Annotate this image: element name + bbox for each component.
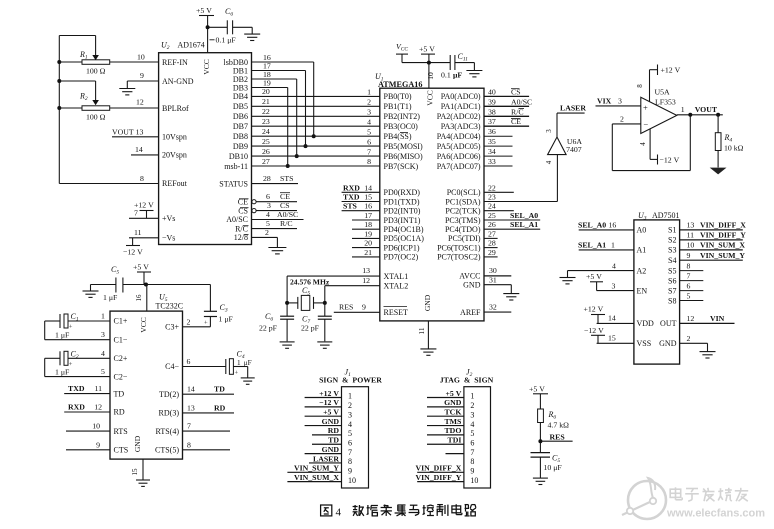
svg-text:STS: STS <box>280 174 293 183</box>
svg-text:TD(2): TD(2) <box>159 390 179 399</box>
svg-text:22: 22 <box>488 183 496 192</box>
svg-text:3: 3 <box>101 330 105 339</box>
svg-text:C1−: C1− <box>114 335 128 344</box>
svg-text:www.elecfans.com: www.elecfans.com <box>666 508 765 520</box>
svg-text:C2+: C2+ <box>114 354 128 363</box>
svg-text:C2: C2 <box>71 349 79 360</box>
svg-text:5: 5 <box>348 429 352 438</box>
svg-text:2: 2 <box>620 115 624 124</box>
svg-text:REFout: REFout <box>162 179 188 188</box>
svg-text:TD: TD <box>114 389 125 398</box>
svg-text:12: 12 <box>362 276 370 285</box>
svg-text:PB6(MISO): PB6(MISO) <box>384 152 423 161</box>
svg-text:PD2(INT0): PD2(INT0) <box>384 207 421 216</box>
svg-text:DB8: DB8 <box>233 132 248 141</box>
svg-text:VIN: VIN <box>710 314 725 323</box>
svg-text:35: 35 <box>488 137 496 146</box>
svg-text:1: 1 <box>681 105 685 114</box>
svg-text:14: 14 <box>608 314 616 323</box>
svg-text:JTAG & SIGN: JTAG & SIGN <box>440 376 494 385</box>
svg-text:20: 20 <box>364 239 372 248</box>
svg-text:msb-11: msb-11 <box>224 162 248 171</box>
svg-text:6: 6 <box>367 137 371 146</box>
svg-text:PA5(ADC05): PA5(ADC05) <box>437 142 481 151</box>
svg-text:20Vspn: 20Vspn <box>162 151 187 160</box>
svg-text:S6: S6 <box>668 276 676 285</box>
svg-text:1: 1 <box>470 392 474 401</box>
svg-text:C3+: C3+ <box>165 323 179 332</box>
svg-text:1 μF: 1 μF <box>219 314 234 323</box>
svg-text:SEL_A0: SEL_A0 <box>510 211 538 220</box>
svg-text:0.1: 0.1 <box>441 71 451 80</box>
svg-text:SEL_A0: SEL_A0 <box>578 221 606 230</box>
svg-text:11: 11 <box>687 231 695 240</box>
svg-text:CS: CS <box>280 201 290 210</box>
svg-text:TDO: TDO <box>444 426 461 435</box>
svg-text:C6: C6 <box>225 7 233 18</box>
svg-text:11: 11 <box>134 228 142 237</box>
svg-text:34: 34 <box>488 147 496 156</box>
svg-text:10: 10 <box>426 72 435 80</box>
svg-text:9: 9 <box>362 303 366 312</box>
svg-text:GND: GND <box>322 417 340 426</box>
svg-text:S5: S5 <box>668 266 676 275</box>
svg-text:38: 38 <box>488 107 496 116</box>
svg-text:27: 27 <box>262 157 270 166</box>
svg-text:3: 3 <box>470 410 474 419</box>
svg-text:2: 2 <box>367 98 371 107</box>
svg-text:1: 1 <box>101 312 105 321</box>
svg-text:GND: GND <box>423 294 432 311</box>
svg-text:12: 12 <box>94 403 102 412</box>
svg-text:24: 24 <box>262 127 270 136</box>
svg-text:C1+: C1+ <box>114 317 128 326</box>
svg-text:19: 19 <box>364 229 372 238</box>
svg-text:3: 3 <box>267 201 271 210</box>
svg-text:AVCC: AVCC <box>459 272 480 281</box>
svg-text:PD5(OC1A): PD5(OC1A) <box>384 234 425 243</box>
svg-text:6: 6 <box>266 192 270 201</box>
svg-text:RES: RES <box>339 303 353 312</box>
svg-text:AD7501: AD7501 <box>652 211 680 220</box>
svg-text:−Vs: −Vs <box>162 234 175 243</box>
svg-text:GND: GND <box>322 445 340 454</box>
svg-text:1 μF: 1 μF <box>55 368 70 377</box>
svg-text:PC0(SCL): PC0(SCL) <box>447 188 481 197</box>
svg-text:OUT: OUT <box>660 319 677 328</box>
svg-text:7: 7 <box>187 422 191 431</box>
svg-text:C1: C1 <box>71 312 79 323</box>
svg-text:RXD: RXD <box>68 403 85 412</box>
svg-text:24: 24 <box>488 202 496 211</box>
svg-text:15: 15 <box>131 468 139 476</box>
svg-text:PC3(TMS): PC3(TMS) <box>445 216 481 225</box>
svg-text:8: 8 <box>687 261 691 270</box>
svg-text:33: 33 <box>488 157 496 166</box>
svg-text:100 Ω: 100 Ω <box>86 67 106 76</box>
svg-text:4: 4 <box>367 117 371 126</box>
svg-text:VIN_DIFF_Y: VIN_DIFF_Y <box>700 231 746 240</box>
svg-text:RESET: RESET <box>384 308 409 317</box>
svg-text:28: 28 <box>263 174 271 183</box>
svg-text:+Vs: +Vs <box>162 214 175 223</box>
svg-text:GND: GND <box>444 398 462 407</box>
svg-text:28: 28 <box>488 239 496 248</box>
svg-text:1: 1 <box>237 359 241 367</box>
svg-text:17: 17 <box>364 211 372 220</box>
svg-text:DB5: DB5 <box>233 102 248 111</box>
svg-text:+12 V: +12 V <box>319 389 339 398</box>
svg-text:S4: S4 <box>668 256 676 265</box>
svg-text:PC7(TOSC2): PC7(TOSC2) <box>437 253 481 262</box>
svg-text:1: 1 <box>367 88 371 97</box>
svg-text:TC232C: TC232C <box>156 302 184 311</box>
svg-text:13: 13 <box>362 266 370 275</box>
svg-text:8: 8 <box>187 440 191 449</box>
svg-text:R4: R4 <box>724 133 733 144</box>
svg-text:4.7 kΩ: 4.7 kΩ <box>548 420 570 429</box>
svg-text:REF-IN: REF-IN <box>162 58 188 67</box>
svg-text:7: 7 <box>134 209 138 218</box>
svg-text:−12 V: −12 V <box>123 248 143 257</box>
svg-text:PB0(T0): PB0(T0) <box>384 92 412 101</box>
svg-text:+5 V: +5 V <box>586 272 602 281</box>
svg-text:PA7(ADC07): PA7(ADC07) <box>437 162 481 171</box>
svg-text:SEL_A1: SEL_A1 <box>578 241 606 250</box>
svg-text:S1: S1 <box>668 226 676 235</box>
svg-text:10 μF: 10 μF <box>544 463 563 472</box>
svg-text:12: 12 <box>687 314 695 323</box>
svg-text:VOUT 13: VOUT 13 <box>112 127 144 136</box>
svg-text:R/C: R/C <box>280 219 293 228</box>
svg-text:2: 2 <box>348 401 352 410</box>
svg-text:+: + <box>69 361 73 368</box>
svg-text:RD(3): RD(3) <box>159 409 180 418</box>
svg-text:PC5(TDI): PC5(TDI) <box>448 234 481 243</box>
svg-text:8: 8 <box>140 174 144 183</box>
svg-text:5: 5 <box>101 367 105 376</box>
svg-text:C11: C11 <box>458 52 469 63</box>
svg-text:A0/SC: A0/SC <box>511 97 532 106</box>
svg-text:DB3: DB3 <box>233 83 248 92</box>
svg-text:μF: μF <box>244 359 252 367</box>
svg-text:9: 9 <box>348 467 352 476</box>
svg-text:VCC: VCC <box>426 90 435 105</box>
svg-text:7407: 7407 <box>566 145 582 154</box>
svg-text:31: 31 <box>489 275 497 284</box>
svg-text:PD4(OC1B): PD4(OC1B) <box>384 225 424 234</box>
svg-text:PA4(ADC04): PA4(ADC04) <box>437 132 481 141</box>
svg-text:PC4(TDO): PC4(TDO) <box>445 225 481 234</box>
svg-text:6: 6 <box>470 438 474 447</box>
svg-text:3: 3 <box>618 96 622 105</box>
svg-text:−12 V: −12 V <box>660 155 680 164</box>
svg-text:C6: C6 <box>265 312 273 323</box>
svg-text:BPLRof: BPLRof <box>162 104 189 113</box>
svg-text:22: 22 <box>262 107 270 116</box>
svg-text:SIGN & POWER: SIGN & POWER <box>319 376 382 385</box>
svg-text:S2: S2 <box>668 236 676 245</box>
svg-text:PA2(ADC02): PA2(ADC02) <box>437 112 481 121</box>
svg-text:PB5(MOSI): PB5(MOSI) <box>384 142 423 151</box>
svg-text:22 pF: 22 pF <box>301 324 320 333</box>
svg-text:6: 6 <box>687 281 691 290</box>
svg-text:DB7: DB7 <box>233 122 248 131</box>
svg-text:9: 9 <box>140 71 144 80</box>
svg-text:PB7(SCK): PB7(SCK) <box>384 162 419 171</box>
svg-text:LASER: LASER <box>313 454 339 463</box>
svg-text:8: 8 <box>470 457 474 466</box>
svg-text:2: 2 <box>687 334 691 343</box>
svg-text:PB3(OC0): PB3(OC0) <box>384 122 419 131</box>
svg-text:TMS: TMS <box>444 417 461 426</box>
svg-text:15: 15 <box>608 334 616 343</box>
svg-text:5: 5 <box>470 429 474 438</box>
svg-text:0.1 μF: 0.1 μF <box>216 35 237 44</box>
svg-text:7: 7 <box>367 147 371 156</box>
svg-text:26: 26 <box>488 220 496 229</box>
svg-text:+5 V: +5 V <box>323 408 339 417</box>
svg-text:AREF: AREF <box>460 308 481 317</box>
svg-text:+5 V: +5 V <box>196 6 212 15</box>
svg-text:3: 3 <box>545 129 553 133</box>
svg-text:PD0(RXD): PD0(RXD) <box>384 188 421 197</box>
svg-text:−12 V: −12 V <box>319 398 339 407</box>
svg-text:16: 16 <box>135 294 143 302</box>
svg-text:25: 25 <box>488 211 496 220</box>
svg-text:9: 9 <box>687 251 691 260</box>
svg-text:2: 2 <box>187 318 191 327</box>
svg-text:+: + <box>69 324 73 331</box>
svg-text:VCC: VCC <box>396 42 408 53</box>
svg-text:10: 10 <box>348 476 356 485</box>
svg-text:VOUT: VOUT <box>695 105 718 114</box>
svg-text:9: 9 <box>470 467 474 476</box>
svg-text:7: 7 <box>687 271 691 280</box>
svg-text:C2−: C2− <box>114 372 128 381</box>
svg-text:RTS(4): RTS(4) <box>155 427 179 436</box>
svg-text:S8: S8 <box>668 296 676 305</box>
svg-text:+5 V: +5 V <box>133 262 149 271</box>
svg-text:+: + <box>235 370 239 377</box>
svg-text:PD7(OC2): PD7(OC2) <box>384 253 419 262</box>
svg-text:+12 V: +12 V <box>661 66 681 75</box>
svg-text:CTS: CTS <box>114 446 129 455</box>
svg-text:PD1(TXD): PD1(TXD) <box>384 197 420 206</box>
svg-text:XTAL2: XTAL2 <box>384 282 409 291</box>
svg-text:10Vspn: 10Vspn <box>162 133 187 142</box>
svg-text:100 Ω: 100 Ω <box>86 113 106 122</box>
svg-text:1 μF: 1 μF <box>55 331 70 340</box>
svg-text:RD: RD <box>214 403 226 412</box>
svg-text:VSS: VSS <box>637 339 652 348</box>
svg-text:4: 4 <box>612 261 616 270</box>
svg-text:C4−: C4− <box>165 362 179 371</box>
svg-text:DB10: DB10 <box>229 152 248 161</box>
svg-text:C5: C5 <box>302 286 310 297</box>
svg-text:A0/SC: A0/SC <box>226 215 248 224</box>
svg-text:PB1(T1): PB1(T1) <box>384 102 412 111</box>
svg-text:4: 4 <box>545 160 553 164</box>
svg-text:VIN_DIFF_X: VIN_DIFF_X <box>700 221 746 230</box>
svg-text:+: + <box>204 320 208 327</box>
svg-text:DB4: DB4 <box>233 92 248 101</box>
svg-text:RTS: RTS <box>114 427 128 436</box>
svg-text:2: 2 <box>470 401 474 410</box>
svg-text:S7: S7 <box>668 286 676 295</box>
svg-text:VCC: VCC <box>139 317 148 332</box>
svg-text:8: 8 <box>348 457 352 466</box>
svg-text:ATMEGA16: ATMEGA16 <box>378 80 422 89</box>
svg-text:9: 9 <box>96 440 100 449</box>
svg-text:10 kΩ: 10 kΩ <box>724 144 744 153</box>
svg-text:5: 5 <box>687 291 691 300</box>
svg-text:STATUS: STATUS <box>219 179 248 188</box>
svg-text:20: 20 <box>262 87 270 96</box>
svg-text:13: 13 <box>187 403 195 412</box>
svg-text:RXD: RXD <box>343 183 360 192</box>
svg-text:19: 19 <box>263 78 271 87</box>
svg-text:12: 12 <box>136 98 144 107</box>
svg-text:R6: R6 <box>548 410 557 421</box>
svg-text:−12 V: −12 V <box>584 326 604 335</box>
svg-text:PC2(TCK): PC2(TCK) <box>445 207 480 216</box>
svg-text:14: 14 <box>187 385 195 394</box>
svg-text:27: 27 <box>488 229 496 238</box>
svg-text:−: − <box>643 119 648 129</box>
svg-text:26: 26 <box>262 147 270 156</box>
svg-text:U2: U2 <box>161 41 170 52</box>
svg-text:3: 3 <box>612 281 616 290</box>
svg-text:21: 21 <box>364 248 372 257</box>
svg-text:+5 V: +5 V <box>529 384 545 393</box>
svg-text:39: 39 <box>488 97 496 106</box>
svg-text:EN: EN <box>637 286 648 295</box>
svg-text:GND: GND <box>659 339 677 348</box>
svg-text:4: 4 <box>101 349 105 358</box>
svg-text:VIN_DIFF_Y: VIN_DIFF_Y <box>415 473 461 482</box>
svg-text:RES: RES <box>550 432 565 441</box>
svg-text:13: 13 <box>687 221 695 230</box>
svg-text:30: 30 <box>489 266 497 275</box>
svg-text:R1: R1 <box>79 50 88 61</box>
svg-text:PA6(ADC06): PA6(ADC06) <box>437 152 481 161</box>
svg-text:TXD: TXD <box>68 384 85 393</box>
svg-text:4: 4 <box>266 210 270 219</box>
svg-text:U3: U3 <box>638 211 647 222</box>
svg-text:VIN_SUM_X: VIN_SUM_X <box>700 241 745 250</box>
svg-text:VIN_SUM_Y: VIN_SUM_Y <box>294 464 339 473</box>
svg-text:PA0(ADC0): PA0(ADC0) <box>441 92 481 101</box>
svg-text:PC6(TOSC1): PC6(TOSC1) <box>437 243 481 252</box>
svg-text:18: 18 <box>364 220 372 229</box>
svg-text:RD: RD <box>328 426 340 435</box>
svg-text:3: 3 <box>367 108 371 117</box>
svg-text:10: 10 <box>687 241 695 250</box>
svg-text:4: 4 <box>639 142 647 146</box>
svg-text:TXD: TXD <box>343 193 360 202</box>
svg-text:+5 V: +5 V <box>445 389 461 398</box>
svg-text:+: + <box>643 102 648 112</box>
svg-text:GND: GND <box>133 435 142 452</box>
svg-text:32: 32 <box>489 302 497 311</box>
svg-text:PB4(SS): PB4(SS) <box>384 132 412 141</box>
svg-text:+12 V: +12 V <box>584 304 604 313</box>
svg-text:TDI: TDI <box>448 436 462 445</box>
svg-text:11: 11 <box>417 327 426 334</box>
svg-text:2: 2 <box>265 228 269 237</box>
svg-text:25: 25 <box>262 137 270 146</box>
svg-text:A1: A1 <box>637 246 647 255</box>
svg-text:36: 36 <box>488 127 496 136</box>
svg-text:VCC: VCC <box>202 59 211 74</box>
svg-text:VIN_SUM_Y: VIN_SUM_Y <box>700 251 745 260</box>
svg-text:23: 23 <box>488 193 496 202</box>
svg-text:4: 4 <box>336 507 342 519</box>
svg-text:PD6(ICP1): PD6(ICP1) <box>384 243 420 252</box>
svg-text:5: 5 <box>367 127 371 136</box>
svg-text:7: 7 <box>470 448 474 457</box>
svg-text:CE: CE <box>280 192 290 201</box>
svg-text:PA3(ADC3): PA3(ADC3) <box>441 122 481 131</box>
svg-text:PB2(INT2): PB2(INT2) <box>384 112 421 121</box>
svg-text:37: 37 <box>488 117 496 126</box>
svg-text:TD: TD <box>214 385 225 394</box>
svg-text:VIX: VIX <box>597 96 612 105</box>
svg-text:C3: C3 <box>220 303 228 314</box>
svg-text:DB6: DB6 <box>233 112 248 121</box>
svg-text:4: 4 <box>348 420 352 429</box>
svg-text:C5: C5 <box>111 265 119 276</box>
svg-text:10: 10 <box>137 53 145 62</box>
svg-text:A0/SC: A0/SC <box>277 210 298 219</box>
svg-text:1: 1 <box>348 392 352 401</box>
svg-text:24.576 MHz: 24.576 MHz <box>290 277 330 286</box>
svg-text:SEL_A1: SEL_A1 <box>510 220 538 229</box>
svg-text:TCK: TCK <box>444 408 461 417</box>
svg-text:STS: STS <box>343 202 357 211</box>
svg-text:VIN_SUM_X: VIN_SUM_X <box>294 473 339 482</box>
svg-text:15: 15 <box>364 193 372 202</box>
svg-text:8: 8 <box>367 157 371 166</box>
svg-text:VIN_DIFF_X: VIN_DIFF_X <box>415 464 461 473</box>
svg-text:CTS(5): CTS(5) <box>155 446 179 455</box>
svg-text:U5A: U5A <box>655 88 671 97</box>
svg-text:XTAL1: XTAL1 <box>384 272 409 281</box>
svg-text:21: 21 <box>262 97 270 106</box>
svg-text:PC1(SDA): PC1(SDA) <box>445 197 480 206</box>
svg-text:PD3(INT1): PD3(INT1) <box>384 216 421 225</box>
svg-text:1: 1 <box>611 241 615 250</box>
svg-text:6: 6 <box>187 357 191 366</box>
svg-text:R2: R2 <box>79 92 88 103</box>
svg-text:6: 6 <box>348 438 352 447</box>
svg-text:7: 7 <box>348 448 352 457</box>
svg-text:3: 3 <box>348 410 352 419</box>
svg-text:4: 4 <box>470 420 474 429</box>
svg-text:LF353: LF353 <box>655 98 676 107</box>
svg-text:LASER: LASER <box>560 104 586 113</box>
svg-text:A0: A0 <box>637 226 647 235</box>
svg-text:RD: RD <box>114 408 125 417</box>
svg-text:11: 11 <box>94 384 102 393</box>
svg-text:VDD: VDD <box>637 319 655 328</box>
svg-text:8: 8 <box>636 84 644 88</box>
svg-text:S3: S3 <box>668 246 676 255</box>
svg-text:AN-GND: AN-GND <box>162 77 194 86</box>
svg-text:22 pF: 22 pF <box>259 324 278 333</box>
svg-text:29: 29 <box>488 248 496 257</box>
